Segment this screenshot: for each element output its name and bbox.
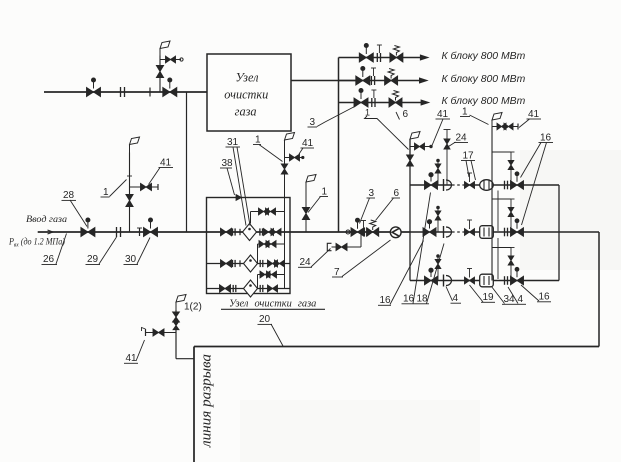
wire main gas line (38, 231, 410, 233)
svg-text:7: 7 (334, 267, 340, 278)
impulse stub left row B (437, 209, 439, 232)
svg-text:16: 16 (380, 295, 392, 306)
valve 28 on main line (81, 228, 95, 237)
control valve output row 1 (390, 53, 403, 62)
svg-text:29: 29 (87, 254, 99, 265)
drain end cap (145, 329, 147, 336)
vent flag top-left riser (159, 49, 161, 56)
small valve with pin row B (465, 229, 475, 236)
impulse stub left row A (437, 162, 439, 185)
impulse stub right row B (492, 198, 511, 200)
svg-text:Узел очистки газа: Узел очистки газа (229, 299, 316, 310)
svg-text:К блоку 800 МВт: К блоку 800 МВт (442, 50, 526, 62)
bypass line 3 (258, 274, 285, 276)
regulator row C (480, 274, 494, 287)
outlet flange row C (504, 276, 506, 285)
wire right header of manifold (558, 185, 560, 281)
svg-text:24: 24 (456, 133, 468, 144)
svg-text:24: 24 (300, 257, 312, 268)
flange output row 2 (370, 76, 372, 85)
wire vent riser from bypass header (284, 148, 286, 212)
svg-text:1: 1 (365, 108, 370, 118)
shutoff valve output row 2 (356, 76, 370, 85)
svg-text:1: 1 (103, 187, 109, 198)
arrow output row 3 (421, 100, 429, 105)
flange before control valve (363, 228, 365, 237)
vent riser on top line (159, 56, 161, 93)
control valve output row 2 (385, 76, 398, 85)
outlet flange row B (504, 228, 506, 237)
outlet flange row A (504, 181, 506, 190)
bypass 3 valves (260, 271, 270, 278)
filter F3 (diamond) (244, 280, 258, 297)
filter branch 1 inlet valve (221, 228, 232, 236)
reducer circle on main line (346, 230, 350, 234)
svg-text:16: 16 (540, 133, 552, 144)
svg-text:41: 41 (126, 353, 138, 364)
filter branch 3 outlet valve (268, 285, 278, 292)
svg-text:1: 1 (322, 187, 328, 198)
svg-text:16: 16 (539, 292, 551, 303)
impulse stub right row C (492, 247, 511, 249)
flag on riser near meter (305, 182, 307, 190)
wire outlet row B to right edge (559, 231, 599, 233)
valve with actuator before cleaning unit (163, 88, 177, 97)
wire bottom long horizontal (194, 346, 599, 348)
bypass 1 valves (259, 208, 269, 215)
block Узел очистки газа (lower box) (207, 198, 291, 294)
svg-text:4: 4 (518, 294, 524, 305)
left header branch 41 with valve (410, 146, 431, 148)
wire left vent stack (129, 153, 131, 233)
small valve with pin row A (465, 182, 475, 189)
wire bypass riser to vent (284, 212, 286, 289)
regulator row A (480, 180, 494, 191)
bypass line 1 (251, 211, 285, 213)
wire purge stub under main line (360, 232, 362, 247)
wire output row 1 (339, 57, 422, 59)
outlet valve row C (511, 276, 524, 285)
check device row A (443, 179, 445, 191)
svg-text:41: 41 (437, 109, 449, 120)
valve with actuator top-left (87, 88, 101, 97)
wire manifold row A (410, 184, 452, 186)
wire manifold row C (410, 280, 559, 282)
shutoff valve 3 on main line (351, 228, 364, 237)
wire filter branch 2 (207, 263, 291, 265)
flag left header (409, 138, 411, 140)
wire output row 2 (339, 80, 421, 82)
valves on bottom vent stack (173, 312, 180, 322)
impulse vent riser row A (24) (446, 130, 448, 186)
filter branch 2 outlet flange (259, 260, 261, 267)
svg-text:очистки: очистки (224, 88, 268, 102)
block Узел очистки газа (upper box) (207, 54, 291, 131)
drain branch with valve 41 bottom (146, 332, 177, 334)
filter branch 3 outlet flange (259, 285, 261, 292)
flange output row 3 (371, 98, 373, 107)
gauge valve row A (425, 181, 438, 190)
wire rupture line vertical (193, 347, 195, 462)
vent valve on left stack (126, 195, 133, 207)
wire top supply line (44, 91, 207, 93)
svg-text:газа: газа (235, 105, 257, 119)
vent branch with valve (160, 59, 181, 61)
svg-text:28: 28 (63, 190, 75, 201)
outlet valve row B (511, 228, 524, 237)
shutoff valve output row 1 (359, 53, 373, 62)
svg-text:4: 4 (453, 293, 459, 304)
flag center impulse vertical (491, 120, 493, 127)
svg-text:41: 41 (160, 158, 172, 169)
gauge valve row B (423, 228, 436, 237)
svg-text:Ввод газа: Ввод газа (26, 214, 67, 225)
check device row B (443, 226, 445, 238)
wire right down corner (598, 232, 600, 347)
vent branch 41 with valve (285, 157, 303, 159)
vent valve on riser (281, 164, 287, 174)
tick on top line (149, 88, 151, 97)
wire vertical drop from top line to main line (186, 92, 188, 232)
svg-text:К блоку 800 МВт: К блоку 800 МВт (442, 73, 526, 85)
wire bottom vent stack (175, 310, 177, 359)
filter branch 1 flange (232, 228, 234, 235)
arrow output row 1 (420, 55, 428, 60)
svg-text:1(2): 1(2) (184, 302, 202, 313)
vent valve on left header (407, 155, 414, 166)
purge valve 24 (336, 243, 347, 250)
svg-text:6: 6 (403, 109, 409, 120)
bypass 2 valves (259, 241, 269, 248)
wire cleaning unit outlet to distribution (291, 80, 362, 82)
flag left vent stack (129, 145, 131, 153)
wire vent riser near meter (305, 190, 307, 232)
svg-text:Узел: Узел (236, 71, 259, 85)
check device row C (443, 275, 445, 287)
regulator row B (480, 226, 494, 239)
filter branch 2 outlet valves (268, 260, 278, 267)
purge end bracket (327, 243, 331, 250)
wire filter branch 3 (207, 288, 291, 290)
gauge valve row C (425, 276, 438, 285)
svg-text:К блоку 800 МВт: К блоку 800 МВт (442, 95, 526, 107)
tick after control valve (377, 229, 379, 236)
impulse stub right row A (492, 151, 511, 153)
wire manifold row B (410, 231, 452, 233)
wire output row 3 (339, 102, 423, 104)
flange output row 1 (376, 53, 378, 62)
thermowell tick on main line (139, 228, 141, 236)
arrow output row 2 (419, 78, 427, 83)
flange joint 29 (116, 227, 118, 237)
wire center impulse vertical (491, 127, 493, 281)
flag bottom vent stack (175, 302, 177, 310)
wire regulator sensing lines (497, 191, 499, 232)
shutoff valve output row 3 (354, 98, 368, 107)
svg-text:31: 31 (227, 137, 239, 148)
valve on riser near meter (302, 208, 309, 220)
tick on left vent stack (127, 175, 132, 177)
svg-text:3: 3 (369, 188, 375, 199)
filter branch 3 inlet valve (220, 285, 231, 293)
wire left header of manifold (409, 139, 411, 281)
filter branch 1 outlet valves (264, 229, 274, 236)
wire distribution feed vertical (338, 58, 340, 233)
svg-text:1: 1 (255, 135, 261, 146)
svg-text:38: 38 (222, 158, 234, 169)
control valve output row 3 (389, 98, 402, 107)
gas meter (390, 227, 401, 238)
vent valve on riser (156, 66, 163, 78)
filter branch 1 outlet flange (259, 228, 261, 235)
filter F1 (diamond) (243, 224, 257, 241)
arrow mark on lower box top (236, 195, 242, 201)
small valve with pin row C (465, 277, 475, 284)
bypass line 2 (258, 243, 285, 245)
svg-text:1: 1 (462, 107, 468, 118)
valve 30 on main line (144, 228, 158, 237)
pin on main line flange (363, 221, 365, 228)
vent branch with valve 41 left (130, 186, 159, 188)
svg-text:19: 19 (483, 292, 495, 303)
svg-text:17: 17 (463, 151, 475, 162)
flag vent riser (284, 140, 286, 148)
center branch 41 with valves (492, 126, 518, 128)
impulse stub left row C (437, 258, 439, 281)
svg-text:20: 20 (259, 314, 271, 325)
filter branch 2 inlet valve (221, 260, 232, 268)
outlet valve row A (511, 181, 524, 190)
svg-text:линия разрыва: линия разрыва (199, 354, 215, 448)
svg-text:6: 6 (394, 188, 400, 199)
insulating flange joint top line (120, 87, 122, 97)
svg-text:41: 41 (528, 109, 540, 120)
filter F2 (diamond) (244, 255, 258, 272)
svg-text:26: 26 (43, 254, 55, 265)
inlet reducer tick (48, 230, 54, 234)
svg-text:3: 3 (310, 117, 316, 128)
svg-text:41: 41 (302, 138, 314, 149)
svg-text:30: 30 (125, 254, 137, 265)
control valve 6 on main line (367, 228, 379, 237)
